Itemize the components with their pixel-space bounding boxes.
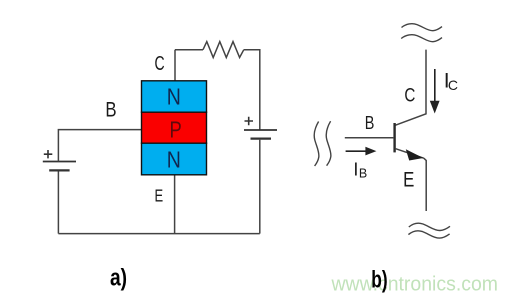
transistor structure: P region (base) [142,112,207,143]
wire: emitter lead of symbol down to break [424,158,426,211]
transistor Q1: emitter diagonal with arrowhead [396,149,424,161]
label IB [353,159,367,180]
svg-text:b): b) [371,267,387,293]
svg-text:C: C [154,51,164,74]
label IC [444,70,458,94]
wire: left battery negative lead from plate to bottom rail [57,170,59,233]
label b) [371,267,387,293]
label a) [110,264,127,292]
wire: emitter lead from N block bottom to bottom rail [174,175,176,234]
label C (structure collector) [154,51,164,74]
resistor R1 [203,42,244,58]
svg-text:I: I [353,159,358,179]
break squiggle (top of collector feed) [401,24,442,42]
label C (symbol collector) [404,84,415,106]
transistor structure: N region (collector) [142,81,207,112]
label P (middle region) [169,118,181,143]
transistor Q1: base bar [393,123,395,152]
svg-text:B: B [359,166,367,180]
label E (structure emitter) [154,187,163,207]
current arrow IC [430,69,440,114]
wire: left battery positive lead up and base rail to P region [58,130,141,162]
transistor structure: N region (emitter) [142,143,207,175]
label B (symbol base) [365,112,375,133]
wire: collector lead of symbol [395,50,426,126]
svg-text:C: C [448,77,458,93]
label N (bottom region) [167,147,181,173]
svg-text:B: B [365,112,375,133]
break squiggle (bottom of emitter lead) [408,223,450,238]
wire: right battery negative lead down to bottom rail [259,140,261,234]
battery B1 (base supply) [43,150,76,170]
current arrow IB [346,147,377,156]
svg-text:N: N [167,147,181,173]
wire: top rail right segment and right drop to battery [244,50,260,130]
wire: collector lead from N block top to top rail [174,50,176,81]
wire: base lead of symbol [345,137,394,139]
svg-text:www.cntronics.com: www.cntronics.com [331,273,498,295]
label E (symbol emitter) [403,169,414,192]
watermark www.cntronics.com [331,273,498,295]
svg-text:E: E [154,187,163,207]
wire: bottom rail [58,233,259,235]
svg-text:a): a) [110,264,127,292]
svg-text:B: B [105,99,116,122]
break squiggle (left of base feed) [314,121,331,166]
svg-text:P: P [169,118,181,143]
svg-text:N: N [167,84,181,110]
wire: top rail left segment [175,49,203,51]
label B (structure base) [105,99,116,122]
label N (top region) [167,84,181,110]
svg-text:C: C [404,84,415,106]
svg-text:E: E [403,169,414,192]
battery B2 (collector supply) [244,117,277,139]
